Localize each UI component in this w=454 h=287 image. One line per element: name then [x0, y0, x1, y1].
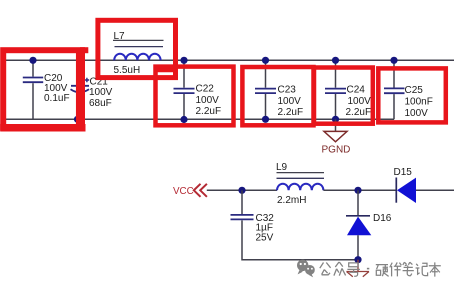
capacitor C20	[23, 60, 70, 119]
svg-text:PGND: PGND	[322, 144, 351, 155]
svg-text:C25: C25	[405, 85, 424, 96]
svg-text:68uF: 68uF	[89, 98, 112, 109]
svg-text:25V: 25V	[256, 233, 274, 244]
svg-text:100V: 100V	[278, 96, 302, 107]
wire L9 to D15	[323, 189, 396, 191]
node C24 bottom	[332, 116, 339, 123]
svg-text:100V: 100V	[196, 95, 220, 106]
red box C20	[80, 47, 88, 53]
capacitor C21 (polarized)	[71, 60, 113, 119]
svg-text:100V: 100V	[348, 96, 372, 107]
node C24 top	[332, 57, 339, 64]
capacitor C25	[384, 60, 433, 119]
red box C24	[314, 68, 373, 124]
svg-text:D16: D16	[373, 213, 392, 224]
svg-text:100V: 100V	[405, 108, 429, 119]
capacitor C22	[174, 60, 222, 119]
red box C22	[154, 69, 175, 73]
wire top bus	[3, 59, 454, 61]
svg-text:2.2mH: 2.2mH	[277, 195, 306, 206]
capacitor C24	[325, 60, 371, 119]
svg-text:0.1uF: 0.1uF	[44, 93, 70, 104]
capacitor C23	[255, 60, 303, 119]
red box C25	[378, 68, 446, 122]
svg-text:L9: L9	[276, 162, 288, 173]
node C21 bottom	[74, 116, 81, 123]
wire bottom bus	[3, 118, 394, 120]
svg-text:2.2uF: 2.2uF	[196, 106, 222, 117]
capacitor C32	[231, 190, 359, 259]
red box L7	[98, 20, 176, 77]
svg-text:C22: C22	[196, 84, 215, 95]
svg-text:100V: 100V	[89, 87, 113, 98]
inductor L9	[276, 162, 324, 206]
ground PGND	[322, 119, 351, 155]
svg-text:5.5uH: 5.5uH	[114, 65, 141, 76]
svg-text:100nF: 100nF	[405, 97, 433, 108]
node L9/D16 junction	[354, 187, 361, 194]
svg-text:C24: C24	[347, 85, 366, 96]
svg-text:2.2uF: 2.2uF	[346, 107, 372, 118]
node C22 top	[180, 57, 187, 64]
watermark text 公众号:硬件笔记本	[320, 262, 441, 277]
ground bottom (cut off)	[347, 260, 370, 277]
inductor L7	[113, 31, 164, 76]
diode D16	[346, 190, 392, 259]
node C25 top	[390, 57, 397, 64]
node bottom junction	[354, 256, 361, 263]
svg-text:D15: D15	[394, 167, 413, 178]
svg-text:VCC: VCC	[173, 186, 194, 197]
svg-text:2.2uF: 2.2uF	[278, 107, 304, 118]
watermark icons	[297, 260, 315, 278]
red box C23	[242, 67, 313, 125]
node C23 top	[262, 57, 269, 64]
node VCC junction	[238, 187, 245, 194]
diode D15	[394, 167, 454, 203]
wire VCC to L9	[207, 189, 277, 191]
node C20 top	[29, 57, 36, 64]
svg-text:C23: C23	[278, 85, 297, 96]
node C22 bottom	[180, 116, 187, 123]
port VCC	[173, 184, 207, 197]
node C23 bottom	[262, 116, 269, 123]
